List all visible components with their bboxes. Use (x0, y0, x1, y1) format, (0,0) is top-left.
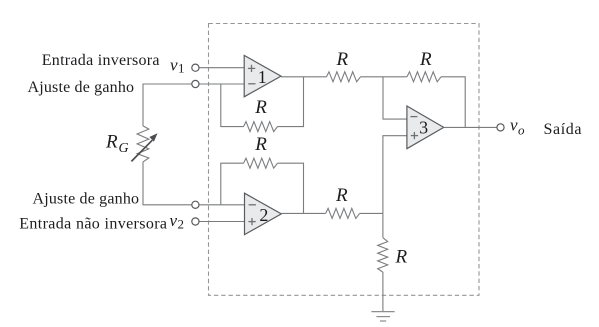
arrow through RG (131, 133, 157, 161)
wire: op-amp 2 output to R3 (281, 212, 325, 214)
wire: RG bottom down and right to gain-adjust bottom terminal (143, 162, 192, 205)
wire: node A down to op-amp 3 inverting input (383, 77, 407, 119)
terminal v2 (192, 218, 199, 225)
wire: gain-adjust bottom terminal to op-amp 2 inverting input (199, 204, 245, 206)
svg-text:1: 1 (258, 67, 267, 87)
resistor R4 (node B to ground, vertical) (378, 238, 388, 273)
terminal vo (497, 124, 504, 131)
wire: op-amp 2 feedback right vertical to output wire (278, 163, 304, 213)
svg-text:R: R (395, 247, 408, 268)
wire: v1 terminal to op-amp 1 noninverting input (199, 67, 244, 69)
terminal gain-adjust bottom (192, 201, 199, 208)
resistor R1 (op-amp 1 output to node A) (327, 72, 361, 82)
wire: R2 right, down to op-amp 3 output node (441, 77, 465, 128)
wire: v2 terminal to op-amp 2 noninverting input (199, 221, 245, 223)
wire: R1 to node A to R2 (361, 76, 408, 78)
resistor R3 (op-amp 2 output to node B) (326, 208, 360, 218)
svg-text:Entrada não inversora: Entrada não inversora (19, 216, 167, 233)
svg-text:2: 2 (259, 205, 268, 225)
wire: R3 to node B (360, 212, 383, 214)
svg-text:R: R (105, 132, 118, 153)
terminal gain-adjust top (192, 80, 199, 87)
resistor R2 (op-amp 3 feedback) (407, 72, 441, 82)
svg-text:Saída: Saída (544, 121, 583, 138)
wire: node B down to R4 (382, 213, 384, 237)
wire: op-amp 3 output to vo terminal (444, 126, 497, 128)
svg-text:Ajuste de ganho: Ajuste de ganho (28, 79, 135, 96)
op-amp U3 (407, 106, 444, 149)
wire: op-amp 1 feedback right vertical to output wire (278, 77, 304, 127)
resistor RF1 (op-amp 1 feedback) (244, 122, 278, 132)
resistor RF2 (op-amp 2 feedback) (244, 158, 278, 168)
ground (371, 312, 394, 321)
svg-text:G: G (119, 141, 129, 156)
wire: R4 to ground (382, 272, 384, 312)
op-amp U2 (245, 193, 282, 234)
wire: gain-adjust top terminal left and down to RG top (143, 84, 192, 126)
svg-text:R: R (254, 97, 267, 118)
svg-text:R: R (335, 185, 348, 206)
svg-text:R: R (419, 49, 432, 70)
svg-text:R: R (336, 49, 349, 70)
potentiometer RG (variable resistor, vertical zigzag) (137, 126, 149, 162)
wire: gain-adjust top terminal to op-amp 1 inverting input (199, 83, 244, 85)
svg-text:Entrada inversora: Entrada inversora (42, 52, 160, 69)
wire: node B up to op-amp 3 noninverting input (383, 136, 407, 214)
svg-text:v: v (510, 116, 518, 135)
svg-text:o: o (518, 123, 525, 138)
op-amp U1 (244, 55, 281, 96)
svg-text:v: v (170, 211, 178, 230)
wire: op-amp 2 feedback left vertical (221, 163, 244, 205)
wire: op-amp 1 output to node A (281, 76, 327, 78)
svg-text:3: 3 (419, 117, 428, 137)
svg-text:v: v (170, 55, 178, 74)
terminal v1 (192, 64, 199, 71)
svg-text:2: 2 (178, 216, 185, 231)
svg-text:1: 1 (178, 61, 185, 76)
svg-text:Ajuste de ganho: Ajuste de ganho (33, 191, 140, 208)
wire: op-amp 1 feedback left vertical (221, 84, 244, 127)
svg-text:R: R (254, 134, 267, 155)
IC boundary dashed box (209, 24, 480, 296)
